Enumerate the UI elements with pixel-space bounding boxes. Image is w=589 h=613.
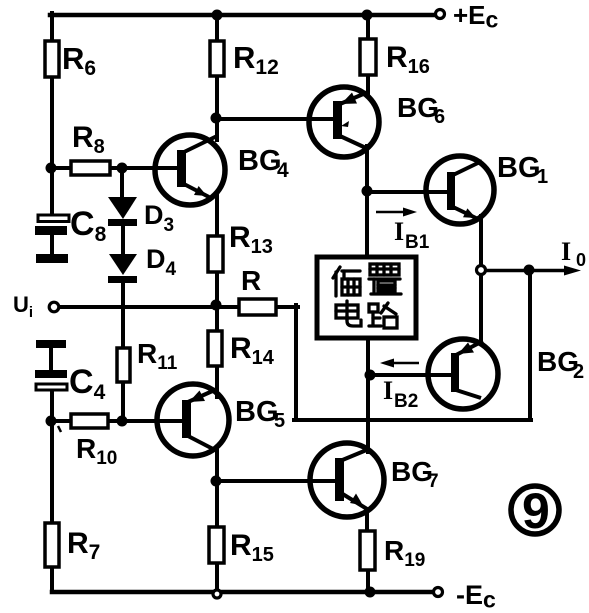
svg-text:2: 2 <box>573 361 584 383</box>
svg-text:BG: BG <box>397 92 439 123</box>
svg-text:BG: BG <box>238 145 282 177</box>
svg-text:6: 6 <box>434 106 445 128</box>
svg-text:0: 0 <box>576 250 586 270</box>
svg-text:B2: B2 <box>394 391 418 412</box>
svg-text:I: I <box>383 376 393 405</box>
svg-text:BG: BG <box>235 396 279 428</box>
svg-text:7: 7 <box>428 471 439 492</box>
svg-text:5: 5 <box>274 410 285 432</box>
svg-text:4: 4 <box>277 159 289 182</box>
svg-text:BG: BG <box>391 456 433 487</box>
svg-text:R: R <box>241 265 261 296</box>
svg-text:BG: BG <box>497 152 541 184</box>
svg-text:B1: B1 <box>405 232 430 253</box>
svg-text:1: 1 <box>537 166 548 188</box>
svg-text:I: I <box>394 217 404 246</box>
svg-text:I: I <box>561 237 571 266</box>
svg-text:9: 9 <box>522 483 550 539</box>
